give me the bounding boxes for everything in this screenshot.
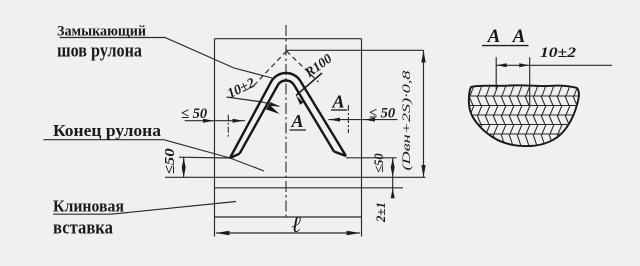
svg-text:вставка: вставка <box>53 218 113 239</box>
svg-text:Клиновая: Клиновая <box>53 197 124 216</box>
svg-text:А: А <box>487 26 501 47</box>
svg-text:Замыкающий: Замыкающий <box>57 24 146 40</box>
svg-text:(Dвн+2S)·0,8: (Dвн+2S)·0,8 <box>399 71 413 171</box>
svg-text:А: А <box>331 92 344 112</box>
svg-text:≤50: ≤50 <box>372 153 386 173</box>
svg-text:10±2: 10±2 <box>540 45 576 61</box>
svg-text:А: А <box>512 26 526 47</box>
svg-text:2±1: 2±1 <box>373 202 388 223</box>
svg-text:≤ 50: ≤ 50 <box>181 106 207 122</box>
svg-text:≤50: ≤50 <box>163 148 178 174</box>
svg-text:≤ 50: ≤ 50 <box>369 106 395 122</box>
svg-text:А: А <box>290 111 303 131</box>
svg-text:шов рулона: шов рулона <box>57 41 142 62</box>
svg-text:Конец рулона: Конец рулона <box>53 121 162 140</box>
svg-text:ℓ: ℓ <box>291 212 301 237</box>
